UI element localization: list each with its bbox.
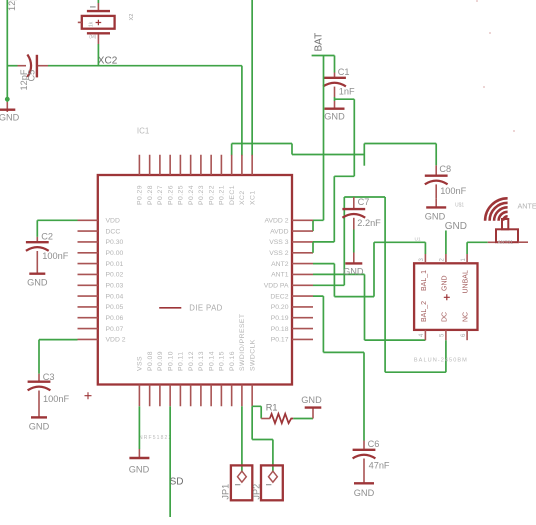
svg-text:ANT1: ANT1 [271, 272, 289, 279]
wire VDD pin to C2 [37, 219, 77, 221]
svg-text:1nF: 1nF [339, 87, 355, 97]
wire VDD_PA to C7 rail [313, 284, 344, 286]
svg-text:XC2: XC2 [239, 190, 246, 205]
wire C7 left vertical [343, 197, 345, 285]
svg-text:DCC: DCC [106, 228, 121, 235]
svg-text:100nF: 100nF [42, 251, 68, 261]
ground below C6 plate [354, 482, 374, 484]
svg-text:(M): (M) [89, 34, 96, 39]
capacitor C6 plates [353, 449, 376, 451]
svg-text:XC1: XC1 [249, 190, 256, 205]
ground above R1 pin (inverted) [312, 409, 314, 419]
svg-text:47nF: 47nF [369, 461, 390, 471]
svg-text:ANT01: ANT01 [498, 240, 514, 246]
wire DEC1 horizontal [232, 143, 292, 145]
balun U1 pin 5 stub [445, 330, 447, 340]
svg-text:SWDCLK: SWDCLK [249, 339, 256, 371]
connector JP2 body [261, 465, 283, 500]
svg-text:GND: GND [301, 395, 322, 405]
wire balun pin1 to antenna [467, 242, 488, 254]
crystal X2 bottom pin [97, 34, 99, 44]
wire C3 down [38, 340, 40, 374]
svg-text:DC: DC [442, 312, 449, 322]
ground below C1 plate [325, 107, 345, 109]
svg-text:VSS 3: VSS 3 [269, 239, 288, 246]
svg-text:4: 4 [419, 333, 425, 337]
svg-text:100nF: 100nF [440, 186, 466, 196]
svg-text:VSS 2: VSS 2 [269, 250, 288, 257]
capacitor C8 plates [425, 174, 448, 176]
capacitor C7 bottom pin [353, 218, 355, 230]
svg-text:C6: C6 [368, 439, 380, 449]
svg-text:AVDD: AVDD [270, 228, 288, 235]
ground below C8 pin [435, 199, 437, 207]
capacitor C3 bottom pin [38, 391, 40, 418]
svg-text:NC: NC [463, 312, 470, 322]
ground below C3 plate [31, 416, 47, 418]
svg-text:XC2: XC2 [98, 55, 118, 66]
wire GND branch from C1 to VSS [334, 99, 354, 242]
svg-text:P0.14: P0.14 [208, 351, 215, 371]
capacitor C5 right pin [38, 65, 48, 67]
IC IC1 top pins [139, 155, 252, 175]
svg-text:VDD: VDD [106, 218, 120, 225]
svg-text:BAT: BAT [313, 33, 324, 52]
wire ANT2 net [313, 242, 425, 296]
svg-text:SD: SD [170, 476, 184, 487]
svg-text:P0.15: P0.15 [219, 351, 226, 371]
connector JP1 pad diamond [238, 471, 247, 482]
balun U1 pin 2 stub [445, 254, 447, 263]
wire VSS2 tie vertical [312, 242, 314, 253]
capacitor C8 top pin [435, 165, 437, 175]
ground below VSS pin [138, 449, 140, 458]
IC IC1 die pad line [159, 307, 181, 309]
svg-text:VDD PA: VDD PA [264, 283, 289, 290]
balun U1 origin cross [444, 294, 450, 300]
wire balun pin2 to GND label [445, 231, 447, 255]
ground above R1 plate [305, 406, 322, 408]
ground below C8 plate [426, 206, 446, 208]
IC IC1 left pins [78, 220, 98, 339]
wire P0.10 SD net [169, 406, 171, 517]
wire AVDD tie vertical [312, 220, 314, 231]
svg-text:GND: GND [425, 211, 446, 221]
wire C7 top rail [344, 196, 385, 198]
svg-text:BAL_1: BAL_1 [421, 270, 428, 291]
svg-text:DIE PAD: DIE PAD [189, 303, 222, 312]
svg-text:BAL_2: BAL_2 [421, 301, 428, 322]
wire SWDIO to JP1 [241, 406, 243, 471]
svg-text:DEC2: DEC2 [270, 293, 288, 300]
svg-text:1: 1 [461, 258, 467, 262]
crystal X2 origin cross [96, 20, 102, 26]
connector JP2 pin dash [266, 484, 271, 486]
svg-text:P0.28: P0.28 [147, 185, 154, 205]
IC IC1 nRF51822 body [98, 175, 292, 385]
ground below C7 pin [353, 253, 355, 263]
svg-text:GND: GND [129, 464, 150, 474]
wire R1 to ground [293, 418, 313, 420]
wire DEC2 net to C6 [313, 296, 364, 440]
svg-text:P0.12: P0.12 [188, 351, 195, 371]
svg-text:P0.22: P0.22 [208, 185, 215, 205]
capacitor C1 plates [323, 77, 346, 79]
wire VSS pin to ground [138, 406, 140, 449]
svg-text:P0.01: P0.01 [106, 261, 124, 268]
connector JP1 body [231, 465, 252, 500]
ground below C1 pin [334, 101, 336, 108]
capacitor C5 left pin [18, 65, 27, 67]
svg-text:P0.17: P0.17 [271, 337, 289, 344]
svg-text:P0.10: P0.10 [167, 351, 174, 371]
svg-text:P0.25: P0.25 [178, 185, 185, 205]
wire C2 down [36, 220, 38, 237]
capacitor C8 bottom pin [435, 184, 437, 198]
wire crystal to XC2 net [97, 44, 99, 66]
svg-text:5: 5 [440, 333, 446, 337]
svg-text:3: 3 [419, 258, 425, 262]
ground GND left plate [0, 108, 15, 110]
svg-text:P0.02: P0.02 [106, 272, 124, 279]
svg-text:P0.29: P0.29 [137, 185, 144, 205]
svg-text:P0.24: P0.24 [188, 185, 195, 205]
svg-text:P0.20: P0.20 [271, 304, 289, 311]
svg-text:DEC1: DEC1 [229, 185, 236, 205]
crystal X2 bottom plate [87, 32, 110, 34]
wire DEC1 to C8 [364, 144, 436, 166]
svg-text:U$1: U$1 [455, 202, 464, 208]
capacitor C5 flat plate [36, 55, 38, 78]
svg-text:AVDD 2: AVDD 2 [264, 218, 288, 225]
svg-text:VSS: VSS [137, 356, 144, 371]
svg-text:ANT2: ANT2 [271, 261, 289, 268]
capacitor C2 top pin [36, 237, 38, 241]
crystal X2 top plate [87, 10, 110, 12]
wire VDD2 pin to C3 [39, 339, 78, 341]
svg-text:P0.09: P0.09 [157, 351, 164, 371]
svg-text:P0.18: P0.18 [271, 326, 289, 333]
wire XC2 net main horizontal [48, 65, 242, 67]
resistor R1 left pin [261, 418, 270, 420]
resistor R1 zigzag [270, 414, 293, 423]
svg-text:C3: C3 [43, 372, 55, 382]
wire C7 rail to balun DC pin [385, 197, 446, 372]
faint grid specks [476, 0, 515, 132]
crystal X2 top wire [97, 0, 99, 3]
wire ANT1 net [313, 274, 425, 340]
wire DEC1 jog up with overshoot [363, 144, 365, 166]
antenna base rectangle [496, 229, 518, 242]
svg-text:P0.11: P0.11 [178, 351, 185, 371]
svg-text:GND: GND [29, 422, 50, 432]
crystal X2 top pin [97, 3, 99, 10]
svg-text:U1: U1 [415, 236, 421, 242]
svg-text:C1: C1 [338, 67, 350, 77]
svg-text:SWDIO/PRESET: SWDIO/PRESET [239, 313, 246, 371]
svg-text:100nF: 100nF [43, 394, 69, 404]
svg-text:C5: C5 [27, 70, 37, 82]
wire BAT down to C1 [334, 56, 336, 73]
capacitor C2 plates [26, 241, 49, 243]
balun U1 body [414, 263, 477, 330]
svg-text:P0.26: P0.26 [167, 185, 174, 205]
svg-text:P0.03: P0.03 [106, 283, 124, 290]
svg-text:P0.07: P0.07 [106, 326, 124, 333]
wire XC2 net left segment [7, 65, 17, 67]
svg-text:C8: C8 [439, 164, 451, 174]
svg-text:GND: GND [0, 112, 20, 122]
svg-text:P0.30: P0.30 [106, 239, 124, 246]
capacitor C5 curved plate [27, 55, 31, 78]
svg-text:BALUN-2450BM: BALUN-2450BM [414, 358, 468, 364]
crystal X2 body rectangle [82, 16, 115, 29]
balun U1 pin 4 stub [424, 330, 426, 340]
svg-text:6: 6 [461, 333, 467, 337]
ground below C2 plate [29, 273, 45, 275]
junction dot left GND rail [5, 97, 10, 102]
wire BAT rail down to AVDD [313, 56, 324, 221]
svg-text:P0.19: P0.19 [271, 315, 289, 322]
wire SWDCLK elbow to R1 [252, 406, 261, 418]
svg-text:12pF: 12pF [7, 0, 17, 11]
svg-text:X2: X2 [129, 14, 135, 21]
balun U1 pin 6 stub [466, 330, 468, 340]
svg-text:C2: C2 [41, 232, 53, 242]
svg-text:P0.23: P0.23 [198, 185, 205, 205]
svg-text:GND: GND [324, 112, 345, 122]
svg-text:P0.13: P0.13 [198, 351, 205, 371]
svg-text:P0.27: P0.27 [157, 185, 164, 205]
connector JP1 pin dash [235, 484, 240, 486]
wire DEC1 jog down [292, 144, 364, 155]
capacitor C6 top pin [363, 441, 365, 449]
ground below VSS plate [129, 457, 149, 459]
wire VSS3 to GND branch [313, 241, 334, 243]
svg-text:VDD 2: VDD 2 [106, 337, 126, 344]
capacitor C1 bottom pin [334, 87, 336, 97]
svg-text:2: 2 [440, 258, 446, 262]
svg-text:2.2nF: 2.2nF [357, 218, 381, 228]
svg-text:P0.04: P0.04 [106, 293, 124, 300]
svg-text:P0.08: P0.08 [147, 351, 154, 371]
svg-text:P0.16: P0.16 [229, 351, 236, 371]
balun U1 pin 1 stub [466, 254, 468, 263]
capacitor C7 top pin [353, 197, 355, 208]
wire XC1 net vertical [251, 0, 253, 156]
IC IC1 bottom pins [139, 385, 252, 407]
wire BAT horizontal [312, 55, 335, 57]
IC IC1 right pins [292, 220, 313, 339]
crystal X2 top grey dash [90, 6, 96, 8]
wire C7 to ground [353, 230, 355, 253]
svg-text:P0.05: P0.05 [106, 304, 124, 311]
wire XC2 net vertical to pin [241, 66, 243, 156]
antenna left pin [488, 241, 496, 243]
svg-text:1k: 1k [88, 21, 94, 27]
antenna radiation arcs [485, 198, 508, 221]
balun U1 pin 3 stub [424, 254, 426, 263]
svg-text:IC1: IC1 [137, 126, 150, 135]
svg-text:R1: R1 [266, 403, 278, 413]
svg-text:JP1: JP1 [221, 484, 231, 500]
wire GND rail left vertical [6, 0, 8, 102]
connector JP2 pad diamond [269, 471, 278, 482]
svg-text:GND: GND [354, 488, 375, 498]
antenna right pin [518, 241, 528, 243]
capacitor C1 top pin [334, 73, 336, 78]
capacitor C6 bottom pin [363, 459, 365, 483]
svg-text:GND: GND [27, 277, 48, 287]
capacitor C7 plates [342, 208, 365, 210]
svg-text:UNBAL: UNBAL [463, 270, 470, 293]
svg-text:P0.00: P0.00 [106, 250, 124, 257]
wire SWDCLK to JP2 [252, 406, 273, 471]
ground below C7 plate [345, 262, 362, 264]
antenna feed rectangle [502, 219, 508, 229]
svg-text:NRF51822: NRF51822 [139, 435, 172, 441]
crystal X2 left stub [78, 21, 82, 23]
ground GND left pin lead [6, 102, 8, 112]
capacitor C2 bottom pin [36, 251, 38, 273]
svg-text:ANTENNA: ANTENNA [518, 202, 536, 211]
svg-text:C7: C7 [358, 197, 370, 207]
svg-text:GND: GND [445, 221, 467, 232]
capacitor C3 plates [28, 381, 51, 383]
wire DEC1 vertical to pin [231, 144, 233, 156]
capacitor C3 top pin [38, 374, 40, 381]
svg-text:P0.06: P0.06 [106, 315, 124, 322]
svg-text:P0.21: P0.21 [219, 185, 226, 205]
wire C1 gnd joint [334, 97, 336, 101]
svg-text:GND: GND [442, 275, 449, 291]
svg-text:GND: GND [343, 266, 364, 276]
svg-text:JP2: JP2 [252, 484, 262, 500]
IC IC1 origin cross [85, 392, 92, 399]
